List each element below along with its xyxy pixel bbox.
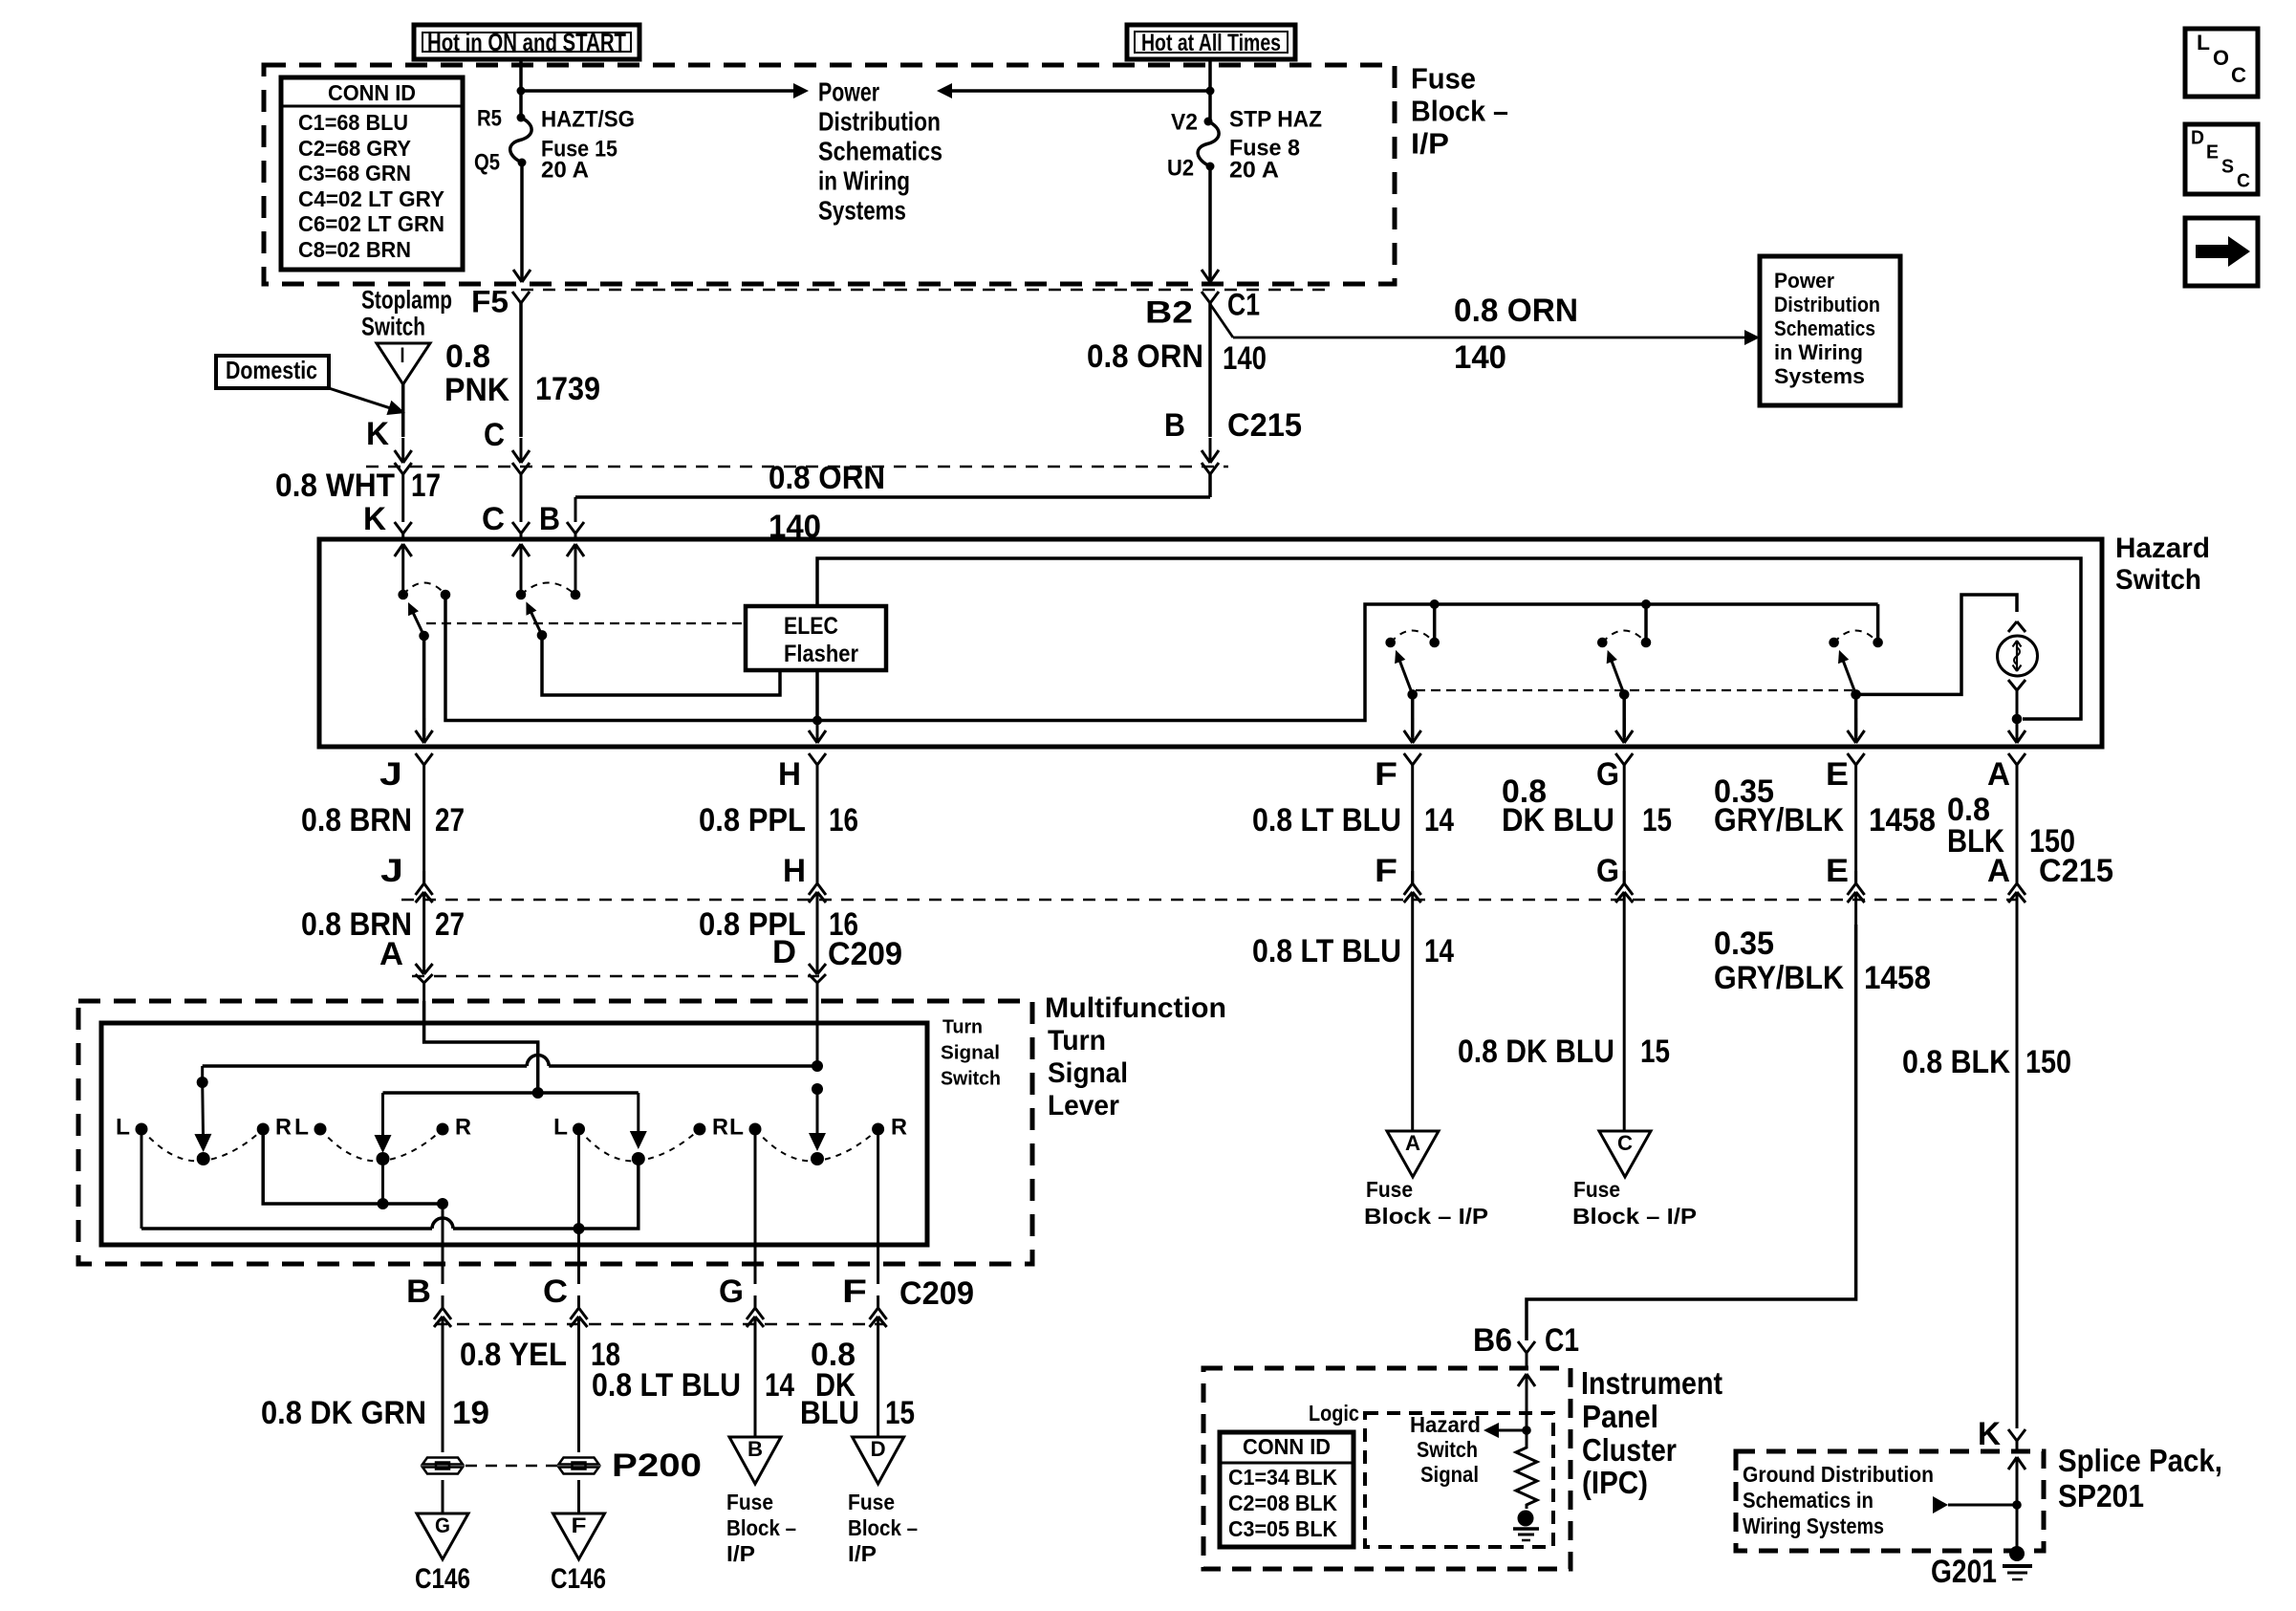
label 0.8 ORN [1087, 338, 1203, 375]
svg-text:0.8 WHT: 0.8 WHT [275, 468, 395, 504]
svg-text:I/P: I/P [848, 1541, 877, 1566]
svg-text:15: 15 [1640, 1034, 1670, 1070]
svg-text:O: O [2213, 46, 2229, 70]
svg-text:0.8 DK BLU: 0.8 DK BLU [1458, 1034, 1614, 1070]
svg-text:H: H [783, 853, 806, 889]
svg-text:15: 15 [1642, 802, 1672, 838]
svg-text:C2=68 GRY: C2=68 GRY [298, 136, 411, 161]
connector C209 pin F (bottom) [842, 1274, 887, 1349]
svg-text:DK BLU: DK BLU [1502, 802, 1614, 838]
svg-text:K: K [1978, 1416, 2001, 1452]
bus2 right drop to pivot 3 [630, 1093, 647, 1149]
label Fuse Block - I/P (B) [726, 1490, 796, 1566]
switch blade 2 [526, 601, 542, 635]
svg-text:C1: C1 [1545, 1322, 1579, 1359]
label Instrument Panel Cluster (IPC) [1581, 1365, 1722, 1500]
svg-text:C8=02 BRN: C8=02 BRN [298, 237, 411, 262]
switch blade 1 [408, 602, 424, 636]
svg-text:R: R [455, 1115, 471, 1141]
svg-text:E: E [1826, 853, 1849, 889]
svg-text:Flasher: Flasher [784, 641, 858, 667]
svg-text:B2: B2 [1145, 294, 1193, 329]
wire fuse to block edge [1202, 166, 1219, 282]
hazard B input arrow [567, 544, 584, 595]
label K (into hazard) [363, 501, 386, 537]
svg-text:Fuse: Fuse [1573, 1177, 1620, 1202]
turn signal switch box [101, 1023, 927, 1245]
hazard pin H [778, 753, 826, 808]
ground distribution / splice pack dashed box [1736, 1451, 2044, 1551]
label 0.8 ORN (to B) [769, 460, 885, 496]
label 0.8 PPL 16 [699, 802, 858, 838]
wire arrow (left) to Power Distribution text [937, 83, 1210, 98]
label 140 [1223, 340, 1267, 377]
svg-text:C1=34 BLK: C1=34 BLK [1228, 1465, 1337, 1490]
ground dist arrow to splice [1933, 1496, 2022, 1513]
node G2 pivot drop [378, 1159, 389, 1209]
node B output [437, 1198, 448, 1209]
label C215 [1227, 407, 1302, 444]
bus2 left drop to pivot 2 [375, 1093, 392, 1153]
connector row pin G [1596, 808, 1633, 925]
wire branch 0.8 ORN 140 to power distribution [1210, 304, 1760, 345]
svg-text:R: R [275, 1115, 292, 1141]
svg-text:0.8 LT BLU: 0.8 LT BLU [1252, 933, 1401, 969]
svg-text:C: C [484, 417, 505, 453]
switch contact (hazard feed) 1 [441, 590, 451, 600]
multifunction lever dashed box [78, 1001, 1032, 1264]
svg-text:Signal: Signal [1048, 1057, 1128, 1089]
svg-text:C: C [543, 1274, 568, 1310]
svg-text:G: G [1596, 853, 1619, 889]
svg-text:Hazard: Hazard [1410, 1412, 1481, 1437]
svg-text:Block –: Block – [726, 1515, 796, 1540]
connector row pin A [1987, 808, 2025, 925]
svg-text:27: 27 [435, 906, 465, 943]
svg-text:Logic: Logic [1309, 1401, 1359, 1426]
label 0.35 GRY/BLK 1458 [1714, 773, 1936, 838]
svg-text:C6=02 LT GRN: C6=02 LT GRN [298, 211, 444, 236]
svg-text:0.8 YEL: 0.8 YEL [460, 1337, 567, 1373]
svg-text:Distribution: Distribution [818, 106, 941, 136]
hazard K input arrow [395, 544, 412, 595]
svg-text:Switch: Switch [361, 313, 425, 341]
wire E pivot to lamp [1856, 595, 2017, 694]
connector K at C215 [395, 463, 412, 522]
svg-text:Stoplamp: Stoplamp [361, 286, 452, 315]
svg-text:Systems: Systems [818, 195, 906, 225]
label Fuse Block - I/P (A) [1364, 1177, 1488, 1229]
label Turn Signal Switch [941, 1017, 1001, 1090]
svg-text:Switch: Switch [1417, 1437, 1478, 1462]
label 0.8 DK BLU 15 (2) [1458, 1034, 1670, 1070]
label C1 (IPC) [1545, 1322, 1579, 1359]
label V2 [1171, 110, 1198, 136]
hazard pin E [1826, 753, 1865, 808]
label 0.8 BRN 27 (2) [301, 906, 465, 943]
wire R4 to F output [877, 1129, 879, 1284]
stoplamp switch label [361, 286, 452, 341]
svg-text:1739: 1739 [535, 371, 600, 407]
svg-text:U2: U2 [1167, 156, 1194, 182]
label C215 (right) [2039, 853, 2113, 889]
wire C into hazard box [512, 522, 530, 541]
connector row pin H [783, 808, 826, 925]
svg-text:K: K [366, 416, 389, 452]
label 0.8 BRN 27 [301, 802, 465, 838]
switch arc 2 [521, 583, 575, 596]
lamp junction node [2008, 714, 2025, 743]
label 0.35 GRY/BLK 1458 (2) [1714, 925, 1931, 996]
label 20 A [541, 158, 589, 184]
bus wire 2 [383, 1087, 639, 1099]
svg-text:0.8 ORN: 0.8 ORN [1087, 338, 1203, 375]
svg-text:14: 14 [765, 1367, 794, 1404]
triangle connector C (fuse block) [1599, 1131, 1651, 1177]
label Multifunction Turn Signal Lever [1045, 992, 1226, 1121]
label C (above C215) [484, 417, 505, 453]
label Fuse 8 [1229, 136, 1300, 162]
svg-text:HAZT/SG: HAZT/SG [541, 107, 635, 133]
label: Fuse Block - I/P [1411, 62, 1508, 161]
svg-text:0.8 ORN: 0.8 ORN [1454, 293, 1578, 329]
svg-text:14: 14 [1424, 933, 1454, 969]
wire G to triangle B [754, 1349, 757, 1437]
svg-text:J: J [380, 853, 403, 889]
svg-text:C215: C215 [1227, 407, 1302, 444]
wire L4 to G output [754, 1129, 757, 1284]
svg-text:E: E [1826, 756, 1849, 793]
svg-text:K: K [363, 501, 386, 537]
svg-text:Fuse: Fuse [726, 1490, 773, 1514]
label 1739 [535, 371, 600, 407]
svg-text:C146: C146 [415, 1563, 470, 1595]
svg-text:PNK: PNK [444, 372, 509, 408]
connector C209 pin G (bottom) [719, 1274, 764, 1349]
wire B into hazard box [567, 522, 584, 541]
grommet P200 left [422, 1458, 463, 1474]
wire fuse to block edge [513, 163, 531, 282]
IPC resistor [1516, 1444, 1537, 1509]
svg-text:1458: 1458 [1869, 802, 1936, 838]
svg-text:I/P: I/P [726, 1541, 755, 1566]
svg-text:Fuse: Fuse [848, 1490, 895, 1514]
svg-text:Hot at All Times: Hot at All Times [1141, 30, 1281, 56]
svg-text:Domestic: Domestic [226, 356, 317, 384]
connector F5 [512, 292, 530, 316]
svg-text:in Wiring: in Wiring [818, 165, 910, 195]
label G201 [1931, 1554, 1997, 1590]
label 0.8 YEL 18 [460, 1337, 620, 1373]
label 17 [411, 468, 441, 504]
arrow Domestic to wire [329, 388, 405, 415]
junction node [517, 87, 526, 96]
svg-text:H: H [778, 756, 801, 793]
label box Domestic [216, 356, 329, 388]
wire grommet to triangle F [577, 1480, 580, 1513]
svg-text:A: A [1987, 756, 2010, 793]
arrow D to pivot 4 [809, 1089, 826, 1151]
svg-text:A: A [1987, 853, 2010, 889]
svg-text:STP HAZ: STP HAZ [1229, 107, 1322, 133]
switch contact K [398, 590, 408, 600]
svg-text:Power: Power [1774, 269, 1834, 293]
svg-text:V2: V2 [1171, 110, 1198, 136]
svg-text:0.8 LT BLU: 0.8 LT BLU [592, 1367, 741, 1404]
connector dashed line C209 bottom [435, 1323, 884, 1326]
label 0.8 LT BLU 14 (2) [1252, 933, 1454, 969]
svg-text:F: F [1375, 853, 1397, 889]
splice input arrow [2008, 1457, 2025, 1505]
svg-text:C209: C209 [828, 936, 902, 972]
wire A hop over bus1 [536, 1042, 540, 1093]
grommet link dashed [466, 1465, 557, 1468]
svg-text:15: 15 [885, 1395, 915, 1431]
label Ground Distribution Schematics in Wiring Systems [1743, 1462, 1934, 1538]
triangle connector G (C146) [417, 1513, 468, 1559]
svg-text:ELEC: ELEC [784, 613, 838, 640]
svg-text:Signal: Signal [941, 1043, 1000, 1064]
switch pivot 2 [537, 630, 548, 641]
connector B6 C1 [1518, 1341, 1535, 1368]
svg-text:Multifunction: Multifunction [1045, 992, 1226, 1024]
svg-text:C: C [482, 501, 505, 537]
bus wire 1 [203, 1056, 823, 1073]
fuse STP HAZ Fuse 8 20A [1198, 118, 1219, 171]
hazard feed stub F [1430, 599, 1440, 642]
switch pivot 1 [419, 631, 429, 642]
turn switch group 4 [729, 1115, 907, 1166]
svg-text:L: L [294, 1115, 309, 1141]
svg-text:Block –: Block – [1411, 95, 1508, 128]
svg-text:I: I [401, 343, 405, 367]
label Q5 [474, 150, 500, 176]
svg-text:G: G [1596, 756, 1619, 793]
label 140 (to B) [769, 509, 821, 545]
svg-text:L: L [2197, 31, 2210, 54]
label U2 [1167, 156, 1194, 182]
legend box LOC [2185, 29, 2258, 97]
svg-text:Wiring Systems: Wiring Systems [1743, 1513, 1884, 1538]
svg-text:D: D [772, 934, 796, 970]
svg-text:0.8: 0.8 [445, 338, 490, 375]
svg-text:Switch: Switch [2115, 564, 2201, 596]
label box: Hot at All Times [1127, 25, 1295, 59]
svg-text:Turn: Turn [942, 1017, 983, 1038]
svg-text:C146: C146 [551, 1563, 606, 1595]
svg-text:Turn: Turn [1048, 1025, 1106, 1056]
flasher output wire [809, 670, 826, 743]
connector row pin E [1826, 808, 1865, 925]
switch contact B [571, 590, 581, 600]
hazard switch box [319, 539, 2102, 747]
label K (splice) [1978, 1416, 2001, 1452]
connector row pin J [380, 808, 433, 925]
legend box arrow [2185, 218, 2258, 286]
connector C209 pin D [809, 925, 826, 1001]
svg-text:Q5: Q5 [474, 150, 500, 176]
svg-text:C209: C209 [899, 1275, 974, 1312]
connector row pin F [1375, 808, 1421, 925]
hazard pin A [1987, 753, 2025, 808]
connector C209 pin A [416, 925, 433, 1001]
svg-text:L: L [729, 1115, 744, 1141]
label 0.8 BLK 150 [1947, 792, 2075, 860]
svg-text:Block –: Block – [848, 1515, 918, 1540]
svg-text:A: A [379, 936, 403, 972]
label Splice Pack SP201 [2058, 1443, 2222, 1513]
wire A to splice pack [2016, 925, 2019, 1428]
svg-text:B: B [539, 501, 560, 537]
connector dashed line C200 [521, 289, 1333, 292]
connector K splice [2008, 1429, 2025, 1451]
svg-text:20 A: 20 A [541, 158, 589, 184]
connector dashed line C209 [412, 975, 819, 978]
wire A input into lever [424, 1001, 538, 1056]
label Fuse 15 [541, 137, 617, 163]
svg-text:P200: P200 [612, 1448, 702, 1484]
svg-text:C2=08 BLK: C2=08 BLK [1228, 1491, 1337, 1515]
label P200 [612, 1448, 702, 1484]
svg-text:R: R [891, 1115, 907, 1141]
triangle connector B (fuse block) [729, 1437, 781, 1484]
label F5 [471, 284, 509, 318]
bus1 left drop [194, 1066, 211, 1152]
svg-text:Fuse: Fuse [1411, 62, 1476, 96]
flasher top wire [817, 558, 2081, 719]
svg-text:14: 14 [1424, 802, 1454, 838]
label C209 (bottom) [899, 1275, 974, 1312]
svg-text:0.8 LT BLU: 0.8 LT BLU [1252, 802, 1401, 838]
power distribution schematics box [1760, 256, 1900, 405]
svg-text:B: B [406, 1274, 431, 1310]
svg-text:Schematics: Schematics [1774, 316, 1875, 340]
svg-text:G201: G201 [1931, 1554, 1997, 1590]
svg-text:0.35: 0.35 [1714, 925, 1774, 962]
label 0.8 PPL 16 (2) [699, 906, 858, 943]
hazard pin F [1375, 753, 1421, 808]
svg-text:R5: R5 [477, 106, 502, 132]
triangle connector A (fuse block) [1387, 1131, 1439, 1177]
label Logic [1309, 1401, 1359, 1426]
svg-text:B: B [1164, 407, 1185, 444]
svg-text:140: 140 [1454, 339, 1506, 376]
node D bus2 level [812, 1083, 823, 1095]
label Hazard Switch [2115, 533, 2210, 596]
label HAZT/SG [541, 107, 635, 133]
svg-text:Power: Power [818, 76, 879, 106]
svg-text:C: C [2237, 171, 2250, 192]
label 0.8 BLK 150 (2) [1902, 1044, 2071, 1080]
svg-text:I/P: I/P [1411, 127, 1449, 161]
label C146 (G) [415, 1563, 470, 1595]
svg-text:140: 140 [1223, 340, 1267, 377]
label Hazard Switch Signal [1410, 1412, 1481, 1487]
label A (C209) [379, 936, 403, 972]
wire F to fuse block [1411, 925, 1414, 1131]
wire D input into lever [816, 1001, 819, 1066]
svg-text:Hazard: Hazard [2115, 533, 2210, 564]
svg-text:G: G [435, 1513, 450, 1537]
connector C209 pin B (bottom) [406, 1274, 451, 1349]
flasher linkage dashed [426, 622, 746, 624]
svg-text:C4=02 LT GRY: C4=02 LT GRY [298, 186, 444, 211]
connector C at C215 [512, 463, 530, 522]
label B6 [1473, 1322, 1512, 1359]
hazard C input arrow [512, 544, 530, 595]
bottom bus wire [141, 1159, 639, 1229]
wire E to IPC B6 [1527, 925, 1856, 1340]
svg-text:C3=68 GRN: C3=68 GRN [298, 161, 411, 185]
CONN ID table (IPC) [1220, 1432, 1354, 1547]
label 0.8 PNK [444, 338, 509, 408]
wire F to triangle D [877, 1349, 879, 1437]
svg-text:(IPC): (IPC) [1582, 1465, 1648, 1500]
svg-text:27: 27 [435, 802, 465, 838]
svg-text:F: F [1375, 756, 1397, 793]
wire pivot2 to flasher [542, 635, 780, 695]
label Fuse Block - I/P (D) [848, 1490, 918, 1566]
IPC dashed box [1203, 1368, 1570, 1569]
label 0.8 DK GRN 19 [261, 1395, 489, 1431]
hazard switch signal arrow [1484, 1423, 1531, 1438]
svg-text:Block – I/P: Block – I/P [1572, 1204, 1697, 1229]
wire arrow to Power Distribution text [521, 83, 809, 98]
svg-text:0.8 BLK: 0.8 BLK [1902, 1044, 2010, 1080]
turn switch group 2 [294, 1115, 471, 1166]
svg-text:Lever: Lever [1048, 1090, 1119, 1121]
turn switch group 1 [116, 1115, 292, 1166]
wire stoplamp K [395, 384, 412, 463]
svg-text:Ground Distribution: Ground Distribution [1743, 1462, 1934, 1487]
triangle connector D (fuse block) [853, 1437, 904, 1484]
wire hazard feed from B contact [445, 595, 1878, 721]
connector dashed line C215 top [366, 466, 1228, 468]
triangle connector F (C146) [553, 1513, 605, 1559]
label 140 (branch) [1454, 339, 1506, 376]
wire 0.8 ORN 140 horizontal to B [575, 474, 1210, 522]
hazard pin J [379, 753, 433, 808]
svg-text:F5: F5 [471, 284, 509, 318]
svg-text:17: 17 [411, 468, 441, 504]
wire L3 to C output [577, 1129, 580, 1284]
wire pivot1 to J exit [416, 636, 433, 743]
fuse HAZT/SG Fuse 15 20A [510, 114, 531, 167]
label STP HAZ [1229, 107, 1322, 133]
svg-text:Fuse: Fuse [1366, 1177, 1413, 1202]
wire B output [442, 1204, 444, 1284]
turn switch group 3 [553, 1115, 728, 1166]
CONN ID table [281, 77, 463, 270]
node C output [574, 1223, 585, 1234]
wire K into hazard box [395, 522, 412, 541]
wire C to grommet [577, 1349, 580, 1452]
wire 0.8 ORN 140 [1202, 303, 1219, 463]
svg-text:C1: C1 [1227, 287, 1260, 321]
svg-text:L: L [116, 1115, 130, 1141]
switch E [1829, 631, 1883, 744]
svg-text:C: C [1617, 1131, 1633, 1155]
svg-text:R: R [712, 1115, 728, 1141]
svg-text:D: D [871, 1437, 886, 1461]
label 0.8 DK BLU 15 [1502, 773, 1672, 838]
label B (C215) [1164, 407, 1185, 444]
label 0.8 WHT [275, 468, 395, 504]
text: Power Distribution Schematics in Wiring Systems [818, 76, 942, 225]
svg-text:Switch: Switch [941, 1069, 1001, 1090]
svg-text:Hot in ON and START: Hot in ON and START [427, 28, 626, 56]
connector C209 pin C (bottom) [543, 1274, 588, 1349]
